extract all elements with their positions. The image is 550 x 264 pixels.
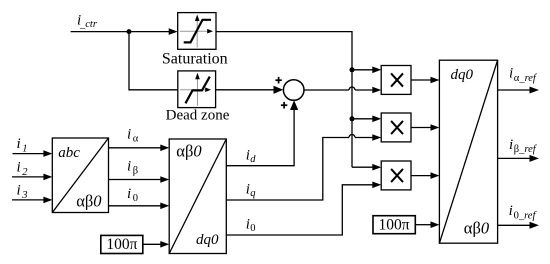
- saturation block U1: [178, 13, 216, 50]
- label i_2: [17, 160, 29, 179]
- svg-text:100π: 100π: [106, 236, 137, 253]
- label i_3: [17, 182, 28, 201]
- wire i_d from block2 up into summer: [226, 110, 294, 166]
- wire input i_3: [12, 199, 44, 201]
- wire i_ctr to Saturation: [71, 31, 170, 33]
- wire i_alpha: [109, 147, 161, 149]
- label i_beta: [127, 159, 138, 177]
- wire saturation output: [216, 32, 352, 168]
- svg-text:α_ref: α_ref: [514, 73, 538, 84]
- label i_1: [17, 136, 28, 155]
- block 100pi #2: [373, 216, 415, 234]
- svg-text:0_ref: 0_ref: [514, 210, 538, 221]
- svg-text:i: i: [127, 126, 131, 142]
- svg-text:i: i: [509, 66, 513, 82]
- svg-text:i: i: [127, 186, 131, 202]
- svg-text:Saturation: Saturation: [162, 50, 228, 67]
- svg-text:i: i: [17, 160, 21, 176]
- plus sign bottom: [281, 102, 287, 109]
- svg-text:i: i: [509, 203, 513, 219]
- label i_alpha: [127, 126, 139, 144]
- svg-text:0: 0: [250, 223, 255, 234]
- wire i_beta: [109, 179, 161, 181]
- svg-text:_ctr: _ctr: [79, 19, 98, 30]
- block U4 ab0 to dq0: [169, 139, 226, 254]
- label i_0_ref: [509, 203, 538, 221]
- svg-text:1: 1: [22, 144, 27, 155]
- svg-text:αβ0: αβ0: [76, 192, 102, 211]
- wire output i_0_ref: [498, 224, 530, 226]
- svg-text:αβ0: αβ0: [464, 218, 490, 237]
- svg-text:β: β: [133, 166, 138, 177]
- saturation input arrowhead: [169, 28, 178, 35]
- svg-text:dq0: dq0: [196, 232, 219, 248]
- wire junction down to Dead zone: [129, 32, 178, 90]
- svg-text:q: q: [250, 188, 255, 199]
- block 100pi #1: [101, 235, 143, 253]
- block U5 dq0 to ab0: [439, 60, 497, 243]
- wire i_zero: [109, 205, 161, 207]
- wire 100pi#1 output: [143, 243, 161, 245]
- wire M1 output: [411, 79, 431, 81]
- label i_q: [246, 182, 256, 200]
- dead zone block U2: [178, 71, 216, 108]
- wire i_q riser with hop into M2: [226, 138, 349, 201]
- multiplier M2: [381, 113, 411, 142]
- wire input i_2: [12, 176, 44, 178]
- wire M3 output: [411, 175, 431, 177]
- wire input i_1: [13, 153, 45, 155]
- wire M2 output: [411, 127, 431, 129]
- svg-text:3: 3: [21, 190, 27, 201]
- summing junction: [283, 80, 304, 101]
- svg-text:Dead zone: Dead zone: [166, 108, 230, 124]
- svg-text:i: i: [17, 136, 21, 152]
- junction dot: [127, 29, 132, 34]
- svg-text:d: d: [250, 154, 256, 165]
- svg-text:100π: 100π: [378, 217, 409, 234]
- svg-text:abc: abc: [58, 145, 80, 161]
- wire summer output with hop into M1: [304, 89, 349, 91]
- block U3 abc to ab0: [52, 138, 108, 213]
- svg-text:β_ref: β_ref: [514, 144, 538, 155]
- label i_ctr: [77, 13, 98, 31]
- label i_a_ref: [509, 66, 538, 84]
- svg-text:dq0: dq0: [451, 67, 474, 83]
- svg-text:αβ0: αβ0: [176, 141, 202, 160]
- wire output i_a_ref: [498, 89, 530, 91]
- svg-text:α: α: [133, 133, 139, 144]
- svg-text:i: i: [17, 182, 21, 198]
- wire i_0 riser into M3: [226, 185, 373, 235]
- plus sign top: [275, 77, 281, 84]
- svg-text:0: 0: [133, 193, 138, 204]
- svg-text:i: i: [127, 159, 131, 175]
- wire output i_b_ref: [498, 157, 530, 159]
- wire dead zone output to summer: [216, 89, 275, 91]
- label i_d: [246, 147, 256, 165]
- node: saturation branch dots and taps: [350, 67, 355, 72]
- label i_0: [246, 217, 256, 235]
- multiplier M3: [381, 161, 411, 190]
- svg-text:i: i: [509, 137, 513, 153]
- multiplier M1: [381, 66, 411, 95]
- label i_zero: [127, 186, 138, 204]
- wire 100pi#2 output: [415, 224, 431, 226]
- label i_b_ref: [509, 137, 538, 155]
- svg-text:2: 2: [22, 167, 28, 178]
